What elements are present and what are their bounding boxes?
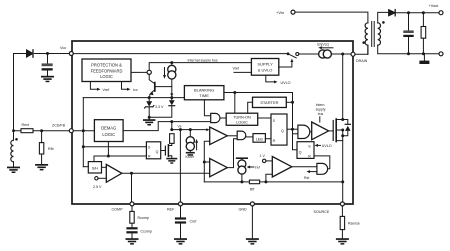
wire starter left to turn-on bbox=[248, 102, 253, 113]
ground (output) bbox=[419, 54, 429, 64]
terminal 1V ref bbox=[263, 159, 273, 162]
svg-text:TURN-ON: TURN-ON bbox=[233, 115, 251, 119]
wire drain node down bbox=[342, 54, 344, 120]
svg-text:+Vin: +Vin bbox=[276, 10, 284, 15]
junction bus to Ich source bbox=[170, 61, 173, 64]
current source Iref bbox=[237, 158, 248, 182]
wire REF external bbox=[180, 206, 182, 238]
resistor Rsense bbox=[340, 206, 344, 238]
wire G3 out to FF3 R bbox=[314, 156, 330, 169]
transistor M2 small mosfet bbox=[161, 143, 172, 157]
arrow annotation down current bbox=[163, 68, 166, 79]
svg-text:UVLO: UVLO bbox=[281, 81, 291, 85]
svg-text:Vcc: Vcc bbox=[60, 46, 66, 50]
pin SOURCE bbox=[340, 202, 344, 206]
label COMP bbox=[112, 208, 124, 212]
junction output cap bbox=[407, 11, 410, 14]
svg-text:DRAIN: DRAIN bbox=[356, 59, 368, 63]
label SOURCE bbox=[314, 210, 330, 214]
terminal 2.5V ref bbox=[95, 177, 107, 180]
transistor M1 power mosfet bbox=[329, 119, 343, 142]
resistor R2 internal bbox=[170, 134, 175, 144]
gate G4 AND (driver) bbox=[298, 125, 312, 138]
pin COMP bbox=[130, 202, 134, 206]
inductor L1 aux winding bbox=[11, 131, 14, 167]
comparator A3 oscillator bbox=[210, 127, 228, 145]
resistor Rff bbox=[249, 180, 259, 184]
wire internal VCC rail bbox=[73, 53, 287, 55]
wire DRAIN to primary bbox=[355, 45, 368, 54]
svg-text:Vref: Vref bbox=[103, 88, 111, 92]
junction A1 out COMP bbox=[130, 172, 133, 175]
phase dot aux winding bbox=[15, 138, 18, 141]
svg-text:Q: Q bbox=[281, 129, 284, 133]
resistor Rfb bbox=[39, 131, 43, 164]
label Ich(VCC) bbox=[317, 43, 329, 47]
diode D5 body bbox=[343, 120, 351, 136]
stub Icc out of protection logic bbox=[122, 82, 138, 93]
junction Vs to REF pin bbox=[179, 128, 182, 131]
wire +Vin to transformer bbox=[295, 12, 368, 23]
arrow annotation Iref bbox=[247, 166, 254, 169]
wire ZCD vertical distribution bbox=[82, 98, 84, 167]
phase dot primary bbox=[362, 41, 365, 44]
svg-text:Rff: Rff bbox=[250, 187, 254, 191]
junction Vs to K Iref source bbox=[189, 128, 192, 131]
wire blanking bottom to gate A bbox=[204, 100, 210, 116]
junction line A diode bbox=[170, 96, 173, 99]
wire line A (zcd rail top) bbox=[83, 97, 184, 99]
ground (SOURCE) bbox=[336, 238, 349, 244]
wire SH to A1 bbox=[102, 166, 107, 168]
terminal output return bbox=[439, 52, 443, 56]
block LEB bbox=[253, 134, 265, 143]
driver buffer A5 bbox=[312, 122, 329, 140]
label 3.3 V bbox=[155, 105, 164, 109]
label Rext bbox=[22, 123, 29, 127]
pin DRAIN bbox=[351, 52, 355, 56]
svg-text:S/H: S/H bbox=[92, 167, 98, 171]
wire output bottom rail bbox=[409, 53, 439, 55]
svg-text:Icc: Icc bbox=[133, 88, 138, 92]
svg-text:Vs: Vs bbox=[178, 124, 182, 128]
capacitor C2 output bbox=[403, 13, 413, 54]
svg-text:Rst: Rst bbox=[304, 176, 309, 180]
ground (M2) bbox=[166, 158, 177, 164]
svg-text:Ccomp: Ccomp bbox=[141, 230, 152, 234]
resistor Rcomp bbox=[130, 206, 134, 227]
label REF bbox=[167, 208, 175, 212]
stub UVLO into FF3 bbox=[315, 144, 332, 148]
wire ramp rail bbox=[204, 181, 343, 183]
svg-text:Rfb: Rfb bbox=[48, 147, 54, 151]
junction Vs bus start bbox=[170, 128, 173, 131]
junction demag rail bbox=[170, 120, 173, 123]
block BLANKING TIME bbox=[184, 86, 224, 100]
wire FF3 Q up rail bbox=[293, 93, 298, 150]
junction ZCD node left bbox=[12, 129, 15, 132]
terminal +Vout bbox=[439, 11, 443, 15]
wire REF pin vertical bbox=[179, 130, 181, 202]
label Ccomp bbox=[141, 230, 152, 234]
ground (zener) bbox=[143, 117, 155, 125]
wire ramp vertical bbox=[204, 141, 209, 182]
stub UVLO out of supply bbox=[266, 75, 291, 85]
wire down to turn-on logic bbox=[234, 93, 236, 114]
block STARTER bbox=[253, 97, 287, 107]
label +Vout bbox=[429, 4, 440, 8]
svg-text:Ich(Vcc): Ich(Vcc) bbox=[317, 43, 329, 47]
wire starter right bbox=[286, 101, 292, 103]
svg-text:LOGIC: LOGIC bbox=[100, 74, 113, 79]
wire Vs bus bbox=[172, 128, 210, 131]
svg-text:FEEDFORWARD: FEEDFORWARD bbox=[91, 68, 123, 73]
ground (VCC cap) bbox=[41, 76, 54, 82]
wire COMP vertical bbox=[131, 173, 133, 202]
junction VCC cap bbox=[46, 52, 49, 55]
wire Vs tap bbox=[171, 122, 173, 130]
wire FF2 Q out bbox=[287, 128, 298, 130]
label K x Iref bbox=[186, 155, 194, 159]
junction ramp A4 bbox=[203, 161, 206, 164]
pin VCC bbox=[69, 52, 73, 56]
wire ZCD pin to demag bbox=[73, 130, 94, 132]
zener D3 3.3V bbox=[145, 98, 154, 118]
label 1 V bbox=[260, 154, 266, 158]
label GND bbox=[239, 208, 248, 212]
svg-text:SOURCE: SOURCE bbox=[314, 210, 330, 214]
svg-text:+Vout: +Vout bbox=[429, 4, 440, 8]
wire LEB to FF2 R bbox=[265, 138, 271, 140]
svg-text:UVLO: UVLO bbox=[322, 144, 332, 148]
arrow annotation Ich left bbox=[318, 46, 333, 49]
latch FF1 (osc) bbox=[146, 142, 160, 159]
ground (COMP) bbox=[126, 238, 139, 244]
label Rfb bbox=[48, 147, 54, 151]
svg-text:3.3 V: 3.3 V bbox=[155, 105, 164, 109]
svg-text:Vref: Vref bbox=[233, 66, 241, 70]
label 2.5 V bbox=[93, 185, 102, 189]
svg-text:Intern.: Intern. bbox=[316, 103, 326, 107]
wire GND external bbox=[251, 206, 253, 238]
junction ZCD pin node bbox=[82, 129, 85, 132]
transformer T1 core bbox=[372, 22, 375, 47]
transformer T1 secondary bbox=[378, 12, 409, 53]
label Rsense bbox=[348, 222, 360, 226]
wire to ZCD pin bbox=[42, 130, 70, 132]
svg-text:supply: supply bbox=[316, 108, 326, 112]
block DEMAG LOGIC bbox=[94, 120, 123, 142]
junction FF2 Q gate D bbox=[291, 128, 294, 131]
wire internal supply bus bbox=[149, 63, 251, 71]
pin ZCD/FB bbox=[69, 129, 73, 133]
junction zener ground bbox=[148, 116, 151, 119]
svg-text:2.5 V: 2.5 V bbox=[93, 185, 102, 189]
op-amp A1 error amp bbox=[106, 164, 122, 182]
ground (aux winding) bbox=[7, 167, 20, 173]
svg-text:Q: Q bbox=[299, 151, 302, 155]
IC boundary U1 bbox=[72, 41, 353, 204]
junction blanking to turn-on bbox=[233, 91, 236, 94]
svg-text:SUPPLY: SUPPLY bbox=[257, 61, 273, 66]
transistor Q1 bbox=[149, 75, 155, 97]
switch S1 bbox=[287, 52, 319, 57]
svg-text:Q: Q bbox=[156, 150, 159, 154]
wire demag out to gate A bbox=[123, 122, 211, 131]
wire A4 out up to gate G2 bbox=[227, 139, 237, 168]
wire protection to Q1 node bbox=[131, 71, 147, 73]
latch FF3 (uvlo) bbox=[297, 142, 314, 159]
svg-text:1 V: 1 V bbox=[260, 154, 266, 158]
label DRAIN bbox=[356, 59, 368, 63]
wire ZCD to FF1 S bbox=[83, 146, 146, 148]
wire ZCD to SH input bbox=[83, 166, 88, 168]
wire M1 source down bbox=[342, 130, 344, 202]
wire ramp to A2 lower input bbox=[266, 174, 272, 182]
wire supply to switch control bbox=[279, 59, 294, 67]
wire demag to FF1 R and S/H bbox=[94, 142, 146, 162]
wire VCC top horizontal bbox=[14, 53, 70, 55]
label +Vin bbox=[276, 10, 284, 15]
svg-text:Rsense: Rsense bbox=[348, 222, 360, 226]
junction line A zener bbox=[148, 96, 151, 99]
svg-text:ZCD/FB: ZCD/FB bbox=[52, 124, 66, 128]
svg-text:TIME: TIME bbox=[199, 93, 209, 98]
ground (K Iref source) bbox=[186, 152, 195, 156]
junction ZCD S tap bbox=[82, 145, 85, 148]
capacitor C1 (VCC) bbox=[42, 54, 53, 76]
wire Q1 base bbox=[156, 86, 172, 88]
svg-text:COMP: COMP bbox=[112, 208, 124, 212]
wire VCC rail left vertical bbox=[13, 54, 15, 131]
svg-text:PROTECTION &: PROTECTION & bbox=[91, 63, 122, 68]
stub Vref into supply bbox=[233, 66, 252, 72]
junction M1 body tap bbox=[341, 118, 344, 137]
svg-text:LEB: LEB bbox=[256, 137, 264, 141]
wire turn-on to FF2 S bbox=[258, 117, 271, 119]
svg-text:Rcomp: Rcomp bbox=[138, 216, 149, 220]
stub Rst bbox=[304, 170, 317, 180]
comparator A4 pwm bbox=[210, 159, 228, 177]
latch FF2 (pwm) bbox=[271, 114, 287, 145]
label Rcomp bbox=[138, 216, 149, 220]
current source Ich internal bbox=[168, 63, 176, 94]
junction bottom rail cap bbox=[407, 52, 425, 55]
node circle Q1 collector bbox=[147, 70, 151, 74]
block PROTECTION & FEEDFORWARD LOGIC bbox=[82, 59, 131, 82]
gate G3 AND (reset) bbox=[317, 163, 328, 174]
wire A3 out to gate G2 bbox=[227, 135, 237, 137]
svg-text:Internal supply bus: Internal supply bus bbox=[188, 58, 218, 62]
block TURN-ON LOGIC bbox=[226, 113, 258, 125]
block SUPPLY & UVLO bbox=[251, 59, 278, 76]
junction demag SH tap bbox=[107, 155, 110, 158]
junction drain node bbox=[341, 53, 344, 56]
wire gate D lower input bbox=[293, 133, 298, 135]
stub intern supply bus bbox=[316, 103, 326, 122]
svg-text:GND: GND bbox=[239, 208, 248, 212]
pin REF bbox=[179, 202, 183, 206]
wire blanking output rail bbox=[224, 93, 293, 103]
junction source ramp rail bbox=[341, 180, 344, 183]
current source Ich startup bbox=[319, 50, 351, 58]
label Vs bbox=[178, 124, 182, 128]
capacitor Ccomp bbox=[126, 227, 137, 238]
svg-text:LOGIC: LOGIC bbox=[102, 132, 115, 137]
transformer T1 primary bbox=[365, 23, 368, 54]
phase dot secondary bbox=[382, 21, 385, 24]
gate G1 AND (blanking) bbox=[211, 113, 227, 122]
svg-text:KxIref: KxIref bbox=[186, 155, 194, 159]
label Rff bbox=[250, 187, 254, 191]
junction starter out bbox=[291, 101, 294, 104]
svg-text:Iref: Iref bbox=[255, 166, 260, 170]
junction Rfb node bbox=[40, 129, 43, 132]
junction output resistor bbox=[422, 11, 425, 14]
junction Iref ramp rail bbox=[240, 180, 243, 183]
ground (Rfb) bbox=[35, 164, 48, 170]
svg-text:STARTER: STARTER bbox=[260, 100, 278, 105]
svg-text:LOGIC: LOGIC bbox=[236, 121, 248, 125]
arrow annotation K Iref up bbox=[195, 139, 198, 150]
capacitor Cref bbox=[175, 217, 186, 223]
resistor R1 load bbox=[421, 13, 426, 54]
wire output top rail bbox=[395, 12, 439, 14]
wire A2 out to gate G3 bbox=[292, 166, 317, 168]
stub Vref out of protection logic bbox=[90, 82, 110, 93]
block S/H bbox=[88, 162, 101, 173]
svg-text:& UVLO: & UVLO bbox=[258, 67, 273, 72]
gate G2 AND (LEB) bbox=[237, 131, 253, 140]
svg-text:bus: bus bbox=[318, 112, 324, 116]
svg-text:Cref: Cref bbox=[190, 220, 197, 224]
arrowhead into core line A bbox=[170, 93, 173, 97]
comparator A2 1V bbox=[272, 157, 292, 178]
pin GND bbox=[250, 202, 254, 206]
diode D4 internal bbox=[149, 98, 175, 118]
wire A1 output bbox=[122, 172, 210, 174]
terminal +Vin bbox=[291, 10, 295, 14]
svg-text:Rext: Rext bbox=[22, 123, 29, 127]
label ZCD/FB bbox=[52, 124, 66, 128]
resistor Rext bbox=[14, 129, 40, 133]
label Cref bbox=[190, 220, 197, 224]
svg-text:DEMAG: DEMAG bbox=[101, 126, 116, 131]
current source K x Iref bbox=[186, 130, 194, 152]
diode D2 output rectifier bbox=[389, 10, 396, 16]
ground (GND pin) bbox=[246, 238, 259, 244]
label Iref bbox=[255, 166, 260, 170]
diode D1 (VCC) bbox=[27, 50, 34, 57]
svg-text:REF: REF bbox=[167, 208, 175, 212]
label Internal supply bus bbox=[188, 58, 218, 62]
svg-text:BLANKING: BLANKING bbox=[194, 88, 214, 93]
ground (REF) bbox=[174, 238, 187, 244]
junction Rff right bbox=[264, 180, 267, 183]
label Vcc bbox=[60, 46, 66, 50]
